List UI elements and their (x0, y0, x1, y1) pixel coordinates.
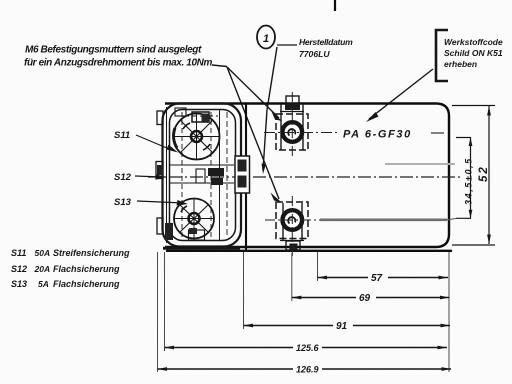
svg-text:69: 69 (359, 293, 371, 304)
svg-text:S13: S13 (114, 197, 132, 208)
svg-text:S12: S12 (114, 172, 132, 183)
svg-text:52: 52 (478, 165, 490, 182)
svg-text:erheben: erheben (444, 59, 477, 69)
svg-text:Streifensicherung: Streifensicherung (53, 248, 130, 258)
svg-text:S11: S11 (114, 130, 130, 141)
svg-text:Flachsicherung: Flachsicherung (53, 264, 120, 274)
svg-text:Schild ON K51: Schild ON K51 (444, 48, 503, 58)
svg-text:M6 Befestigungsmuttern sind au: M6 Befestigungsmuttern sind ausgelegt (25, 45, 202, 56)
svg-text:1: 1 (263, 33, 269, 45)
svg-text:91: 91 (336, 321, 348, 332)
svg-text:34,5±0,5: 34,5±0,5 (464, 157, 474, 205)
svg-text:Herstelldatum: Herstelldatum (299, 37, 353, 47)
svg-text:für ein Anzugsdrehmoment bis m: für ein Anzugsdrehmoment bis max. 10Nm (24, 58, 212, 69)
svg-text:PA 6-GF30: PA 6-GF30 (343, 129, 412, 141)
svg-text:126.9: 126.9 (296, 365, 319, 375)
svg-text:Flachsicherung: Flachsicherung (53, 279, 120, 289)
svg-text:S11: S11 (11, 248, 26, 258)
svg-text:S13: S13 (11, 279, 27, 289)
svg-text:57: 57 (371, 273, 383, 284)
svg-text:5A: 5A (38, 279, 49, 289)
svg-text:50A: 50A (35, 248, 51, 258)
svg-text:7706LU: 7706LU (299, 49, 330, 59)
svg-text:125.6: 125.6 (296, 343, 320, 353)
svg-text:S12: S12 (11, 264, 27, 274)
svg-text:20A: 20A (34, 264, 51, 274)
svg-text:Werkstoffcode: Werkstoffcode (444, 37, 503, 47)
